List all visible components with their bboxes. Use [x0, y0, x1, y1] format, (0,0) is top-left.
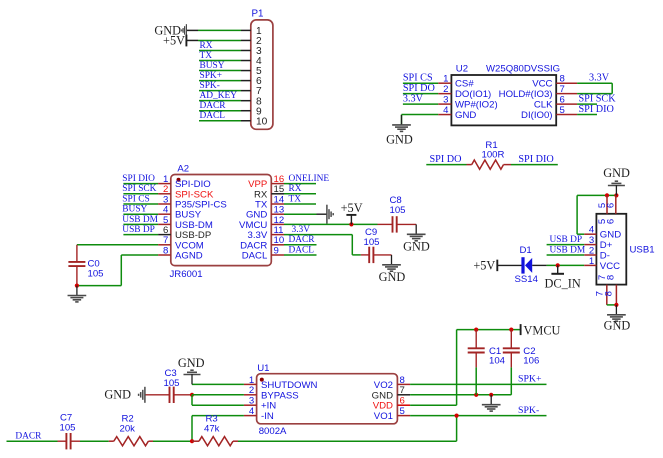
ground below C8	[407, 224, 426, 240]
svg-text:USB DM: USB DM	[122, 215, 158, 225]
wire VMCU rail	[457, 329, 521, 331]
svg-text:U2: U2	[456, 64, 468, 75]
wire net BUSY to A2 pin 4	[123, 213, 158, 215]
U2 pin 5 stub	[556, 114, 577, 116]
USB1 pin 8 stub	[615, 285, 617, 305]
wire net USB DP to USB1 pin 3	[547, 244, 585, 246]
svg-text:105: 105	[364, 237, 380, 248]
svg-text:VCC: VCC	[532, 79, 552, 90]
capacitor C1	[468, 330, 485, 395]
wire net SPI DIO from U2 pin 5	[577, 114, 597, 116]
USB1 pin 7 stub	[606, 285, 608, 305]
svg-text:105: 105	[88, 268, 104, 279]
power +5V above A2 pin 12 wire	[346, 215, 356, 225]
wire USB1 pin 4 GND riser	[577, 195, 584, 234]
wire U1 pin 4 to R2/R3 junction	[192, 416, 244, 442]
U2 pin 4 stub	[438, 114, 451, 116]
pin 10 stub of P1	[241, 120, 251, 122]
svg-text:100R: 100R	[482, 150, 505, 161]
ground below C9	[382, 255, 401, 271]
wire net DACL from A2 pin 9	[284, 254, 317, 256]
wire P1 pin 2 (power)	[186, 39, 198, 41]
svg-text:SPI SCK: SPI SCK	[579, 94, 617, 105]
svg-text:USB1: USB1	[630, 245, 655, 256]
pin 1 stub of P1	[241, 29, 251, 31]
wire net RX from A2 pin 15	[284, 193, 316, 195]
svg-text:BYPASS: BYPASS	[261, 390, 299, 401]
pin-1 marker dot of U1	[260, 378, 264, 382]
U1 pin 8 stub	[397, 383, 410, 385]
wire net DACR to C7	[7, 440, 58, 442]
A2 pin 5 stub	[158, 223, 171, 225]
wire net 3.3V to U2 pin 3	[403, 103, 438, 105]
wire net SPK- from U1 pin 5	[410, 415, 546, 417]
svg-text:SPK+: SPK+	[518, 374, 542, 385]
wire net SPK+ from U1 pin 8	[410, 383, 546, 385]
svg-text:USB DM: USB DM	[550, 246, 586, 256]
wire net DACR from A2 pin 10	[284, 244, 317, 246]
svg-text:AGND: AGND	[175, 251, 203, 262]
U2 pin 1 stub	[438, 82, 451, 84]
U1 pin 6 stub	[397, 404, 410, 406]
power +5V at diode D1	[496, 260, 498, 272]
svg-text:DACL: DACL	[289, 245, 315, 255]
capacitor C0	[68, 245, 85, 286]
junction at +5V on VMCU wire	[349, 222, 353, 226]
svg-text:105: 105	[60, 423, 76, 434]
wire net USB DM to A2 pin 5	[123, 223, 158, 225]
svg-text:DACL: DACL	[200, 111, 226, 121]
ground below U1 GND rail	[482, 395, 501, 411]
svg-text:JR6001: JR6001	[170, 269, 203, 280]
A2 pin 9 stub	[271, 254, 284, 256]
svg-text:GND: GND	[403, 240, 430, 254]
resistor R2	[109, 437, 153, 446]
svg-text:+IN: +IN	[261, 401, 276, 412]
svg-text:+5V: +5V	[163, 33, 185, 47]
U2 pin 6 stub	[556, 103, 577, 105]
U2 pin 3 stub	[438, 103, 451, 105]
wire U1 pin 1 to ground	[192, 383, 244, 385]
amplifier U1 body	[257, 374, 398, 424]
A2 pin 2 stub	[158, 193, 171, 195]
wire net SPI DIO to A2 pin 1	[123, 183, 158, 185]
svg-text:8: 8	[604, 291, 615, 296]
svg-text:U1: U1	[257, 363, 269, 374]
wire net USB DP to A2 pin 6	[123, 234, 158, 236]
svg-text:GND: GND	[379, 270, 406, 284]
pin 6 stub of P1	[241, 80, 251, 82]
wire net AD_KEY to P1 pin 8	[199, 100, 241, 102]
svg-text:3.3V: 3.3V	[589, 73, 610, 84]
svg-text:GND: GND	[178, 356, 205, 370]
A2 pin 8 stub	[158, 254, 171, 256]
power port DC_IN	[551, 265, 564, 273]
junction at C3 and U1 pin 2	[190, 393, 194, 397]
svg-text:DC_IN: DC_IN	[545, 276, 581, 290]
svg-text:8002A: 8002A	[259, 426, 287, 437]
ground right of A2 pin 13	[327, 205, 333, 224]
svg-text:AD_KEY: AD_KEY	[200, 91, 238, 101]
pin-1 marker dot of A2	[177, 178, 181, 182]
junction at USB1 pin 5 stub	[605, 193, 609, 197]
svg-text:DACR: DACR	[15, 432, 42, 442]
svg-text:-IN: -IN	[261, 411, 274, 422]
wire net SPI DIO from R1	[511, 164, 558, 166]
svg-text:+5V: +5V	[473, 258, 495, 272]
svg-text:BUSY: BUSY	[122, 205, 147, 215]
junction R2/R3/-IN	[190, 439, 194, 443]
svg-text:CLK: CLK	[534, 100, 553, 111]
wire A2 pin 13 to ground	[284, 213, 317, 215]
wire A2 pin 12 VMCU to +5V and C8	[284, 223, 378, 225]
audio chip A2 body	[171, 175, 271, 266]
svg-text:8: 8	[606, 275, 617, 280]
svg-text:GND: GND	[603, 166, 630, 180]
A2 pin 15 stub	[271, 193, 284, 195]
U1 pin 7 stub	[397, 394, 410, 396]
svg-text:3.3V: 3.3V	[292, 225, 311, 235]
wire net SPI SCK from U2 pin 6	[577, 103, 597, 105]
wire net SPI DO to U2 pin 2	[403, 93, 438, 95]
svg-text:VO2: VO2	[374, 380, 393, 391]
svg-text:105: 105	[164, 378, 180, 389]
junction feedback on VO1	[455, 414, 459, 418]
capacitor C8	[378, 216, 417, 232]
U1 pin 1 stub	[244, 383, 257, 385]
wire net RX to P1 pin 3	[199, 49, 241, 51]
svg-text:SPK+: SPK+	[200, 71, 223, 81]
svg-text:GND: GND	[372, 390, 393, 401]
svg-text:+5V: +5V	[341, 201, 363, 215]
wire bridging USB1 pins 7 and 8	[607, 304, 617, 306]
svg-text:10: 10	[256, 116, 268, 127]
wire net TX from A2 pin 14	[284, 203, 316, 205]
svg-text:DACR: DACR	[200, 101, 227, 111]
pin 9 stub of P1	[241, 110, 251, 112]
svg-text:D-: D-	[600, 251, 610, 262]
U1 pin 2 stub	[244, 394, 257, 396]
wire R3 feedback to U1 VO1	[238, 416, 457, 442]
svg-text:W25Q80DVSSIG: W25Q80DVSSIG	[486, 64, 560, 75]
A2 pin 4 stub	[158, 213, 171, 215]
wire net ONELINE from A2 pin 16	[284, 183, 316, 185]
svg-text:SPI SCK: SPI SCK	[122, 184, 156, 194]
svg-text:3.3V: 3.3V	[403, 94, 424, 105]
svg-text:ONELINE: ONELINE	[289, 174, 330, 184]
USB connector USB1 body	[596, 214, 626, 285]
ground below C0	[68, 286, 87, 302]
svg-text:GND: GND	[104, 388, 131, 402]
U1 pin 5 stub	[397, 415, 410, 417]
A2 pin 10 stub	[271, 244, 284, 246]
A2 pin 3 stub	[158, 203, 171, 205]
USB1 pin 3 stub	[584, 244, 596, 246]
junction below USB1 pin 8	[614, 303, 618, 307]
wire D1 to USB1 VCC	[532, 264, 584, 266]
wire R2 to junction	[153, 440, 192, 442]
USB1 pin 4 stub	[584, 233, 596, 235]
svg-text:USB DP: USB DP	[122, 225, 155, 235]
svg-text:SPI DIO: SPI DIO	[122, 174, 155, 184]
wire A2 pin 7 VCOM to C0	[77, 244, 158, 246]
wire net DACR to P1 pin 9	[199, 110, 241, 112]
connector P1	[251, 20, 273, 129]
ground left of C3	[139, 387, 145, 403]
A2 pin 13 stub	[271, 213, 284, 215]
pin 5 stub of P1	[241, 70, 251, 72]
wire net 3.3V from A2 pin 11 to C9	[284, 235, 361, 255]
svg-text:USB DP: USB DP	[550, 235, 583, 245]
svg-text:SPI DIO: SPI DIO	[518, 154, 553, 165]
svg-text:CS#: CS#	[455, 79, 474, 90]
U2 pin 2 stub	[438, 93, 451, 95]
junction at C0 bottom	[75, 284, 79, 288]
svg-text:SPK-: SPK-	[200, 81, 220, 91]
power +5V at P1 pin 2	[185, 35, 187, 47]
svg-text:VDD: VDD	[373, 401, 393, 412]
svg-text:WP#(IO2): WP#(IO2)	[455, 100, 498, 111]
svg-text:6: 6	[606, 203, 617, 208]
wire junction down to U1 pin 3	[192, 395, 244, 405]
svg-text:SPI DO: SPI DO	[430, 154, 462, 165]
svg-text:RX: RX	[289, 184, 302, 194]
ground below U2 pin 4	[392, 115, 411, 131]
svg-text:SPI DIO: SPI DIO	[579, 104, 614, 115]
pin 7 stub of P1	[241, 90, 251, 92]
wire C7 to R2	[80, 440, 109, 442]
wire net USB DM to USB1 pin 2	[547, 254, 585, 256]
junction at ground tap	[489, 393, 493, 397]
wire net SPI CS to U2 pin 1	[403, 82, 438, 84]
capacitor C7	[58, 433, 81, 449]
wire net SPI CS to A2 pin 3	[123, 203, 158, 205]
A2 pin 7 stub	[158, 244, 171, 246]
resistor R1	[467, 160, 512, 169]
U2 pin 7 stub	[556, 93, 577, 95]
svg-text:6: 6	[606, 219, 617, 224]
U1 pin 3 stub	[244, 404, 257, 406]
junction C1 bottom	[474, 393, 478, 397]
USB1 pin 1 stub	[584, 264, 596, 266]
junction C1 top	[474, 328, 478, 332]
svg-text:GND: GND	[604, 319, 631, 333]
svg-text:SPI CS: SPI CS	[403, 73, 433, 84]
wire net SPK- to P1 pin 7	[199, 90, 241, 92]
wire USB1 top shield rail	[577, 194, 616, 196]
wire net TX to P1 pin 4	[199, 60, 241, 62]
svg-text:SPI CS: SPI CS	[122, 194, 149, 204]
A2 pin 6 stub	[158, 234, 171, 236]
svg-text:GND: GND	[386, 132, 413, 146]
junction C2 top	[509, 328, 513, 332]
wire net SPK+ to P1 pin 6	[199, 80, 241, 82]
A2 pin 12 stub	[271, 223, 284, 225]
pin 2 stub of P1	[241, 39, 251, 41]
ground above USB1	[608, 181, 625, 195]
capacitor C9	[361, 247, 392, 263]
svg-text:20k: 20k	[120, 423, 136, 434]
svg-text:TX: TX	[200, 51, 213, 61]
svg-text:A2: A2	[177, 164, 189, 175]
pin 3 stub of P1	[241, 49, 251, 51]
U2 pin 8 stub	[556, 82, 577, 84]
A2 pin 1 stub	[158, 183, 171, 185]
svg-text:BUSY: BUSY	[200, 61, 225, 71]
svg-text:47k: 47k	[204, 423, 220, 434]
svg-text:106: 106	[523, 356, 539, 367]
svg-text:104: 104	[489, 356, 506, 367]
diode D1 SS14	[523, 257, 532, 273]
svg-text:SPI DO: SPI DO	[403, 83, 435, 94]
svg-text:D+: D+	[600, 240, 613, 251]
wire net SPI DO to R1	[426, 164, 466, 166]
svg-text:105: 105	[390, 205, 406, 216]
USB1 pin 5 stub	[606, 195, 608, 213]
svg-text:DACR: DACR	[289, 235, 316, 245]
wire U1 pin 6 VDD riser to VMCU rail	[410, 330, 457, 406]
A2 pin 16 stub	[271, 183, 284, 185]
svg-text:GND: GND	[600, 230, 621, 241]
capacitor C2	[503, 330, 520, 395]
ground below USB1	[607, 305, 626, 321]
svg-text:D1: D1	[520, 245, 532, 256]
svg-text:GND: GND	[455, 110, 476, 121]
svg-text:DI(IO0): DI(IO0)	[521, 110, 552, 121]
svg-text:VMCU: VMCU	[524, 323, 561, 337]
wire A2 pin 8 AGND down to C0 bottom	[77, 255, 158, 286]
capacitor C3	[145, 387, 192, 403]
wire C3 junction to U1 pin 2	[192, 394, 244, 396]
wire U1 pin 7 GND rail	[410, 394, 511, 396]
wire net BUSY to P1 pin 5	[199, 70, 241, 72]
wire net DACL to P1 pin 10	[199, 120, 241, 122]
svg-text:TX: TX	[289, 194, 302, 204]
svg-text:RX: RX	[200, 41, 213, 51]
svg-text:VO1: VO1	[374, 411, 393, 422]
power port VMCU	[520, 324, 522, 335]
pin 8 stub of P1	[241, 100, 251, 102]
A2 pin 14 stub	[271, 203, 284, 205]
svg-text:HOLD#(IO3): HOLD#(IO3)	[499, 89, 553, 100]
svg-text:VCC: VCC	[600, 261, 620, 272]
svg-text:SHUTDOWN: SHUTDOWN	[261, 380, 318, 391]
flash chip U2 body	[451, 75, 556, 125]
svg-text:SPK-: SPK-	[518, 405, 539, 416]
USB1 pin 2 stub	[584, 254, 596, 256]
svg-text:DACL: DACL	[242, 251, 268, 262]
ground above U1 pin 1 wire	[184, 370, 201, 384]
wire P1 pin 1 (power)	[186, 29, 198, 31]
svg-text:P1: P1	[252, 9, 264, 20]
pin 4 stub of P1	[241, 60, 251, 62]
wire U2 pin 4 to ground	[402, 115, 439, 126]
svg-text:DO(IO1): DO(IO1)	[455, 89, 491, 100]
ground GND at P1 pin 1	[182, 24, 187, 37]
junction at DC_IN	[556, 263, 560, 267]
wire net SPI SCK to A2 pin 2	[123, 193, 158, 195]
resistor R3	[192, 437, 238, 446]
wire +5V to D1 anode side	[497, 264, 521, 266]
A2 pin 11 stub	[271, 234, 284, 236]
wire 3.3V loop U2 pin 8 to pin 7	[577, 83, 612, 93]
svg-text:SS14: SS14	[515, 274, 539, 285]
junction at USB1 pin 6 stub	[614, 193, 618, 197]
U1 pin 4 stub	[244, 415, 257, 417]
USB1 pin 6 stub	[615, 195, 617, 213]
